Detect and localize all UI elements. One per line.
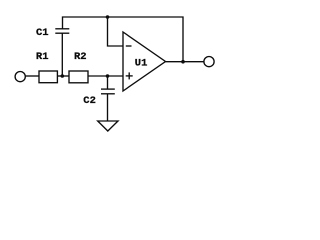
wire R2 to plus input — [88, 75, 123, 77]
svg-text:R2: R2 — [74, 51, 87, 63]
op-amp plus pin — [126, 72, 133, 79]
wire C1 bottom lead — [61, 33, 63, 76]
resistor R1 — [39, 71, 57, 83]
node output terminal — [204, 57, 214, 67]
wire op-amp output — [166, 61, 204, 63]
wire R1 to R2 — [57, 75, 69, 77]
node D junction output — [181, 60, 185, 64]
node B junction plus-C2 — [106, 74, 110, 78]
svg-text:C1: C1 — [36, 27, 49, 39]
capacitor C2 — [101, 89, 115, 94]
node input terminal — [15, 72, 25, 82]
capacitor C1 — [55, 29, 69, 33]
wire top net: C1 top to right side — [63, 17, 184, 62]
wire C2 bottom lead to ground — [107, 94, 109, 121]
svg-text:R1: R1 — [36, 51, 49, 63]
resistor R2 — [69, 71, 88, 83]
ground — [98, 121, 118, 131]
wire minus input branch — [108, 17, 123, 46]
svg-text:C2: C2 — [83, 95, 96, 107]
wire input to R1 — [26, 75, 39, 77]
node C junction top wire — [106, 15, 110, 19]
op-amp minus pin — [126, 45, 132, 47]
wire C2 top lead — [107, 76, 109, 89]
svg-text:U1: U1 — [135, 58, 148, 70]
node A junction R1-R2-C1 — [61, 74, 65, 78]
op-amp U1 — [123, 32, 166, 91]
